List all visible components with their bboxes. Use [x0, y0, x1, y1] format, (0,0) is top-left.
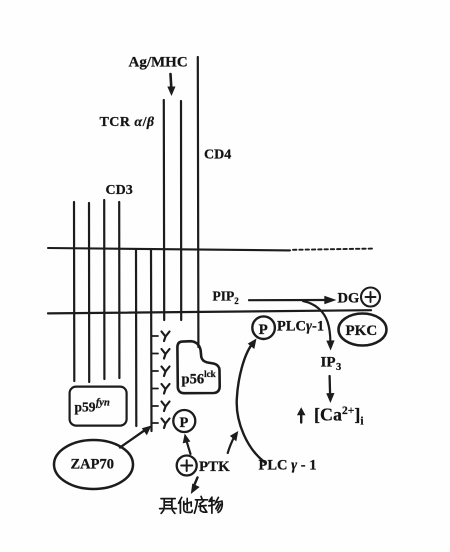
big curve PLCg-1 to circled P [237, 345, 265, 463]
hanzi WU (substance) [209, 497, 223, 513]
PKC ellipse [339, 314, 387, 346]
svg-text:CD4: CD4 [204, 148, 231, 163]
phosphotyrosine Y 5 [162, 402, 170, 412]
ITAM tick 3 [152, 370, 159, 372]
svg-text:Ag/MHC: Ag/MHC [129, 55, 188, 71]
p59fyn box [70, 387, 127, 426]
svg-text:p59fyn: p59fyn [75, 398, 110, 415]
phosphotyrosine Y 2 [162, 349, 170, 359]
ZAP70 ellipse [54, 440, 133, 489]
svg-text:PIP2: PIP2 [213, 289, 240, 307]
circled P on zeta chain [173, 410, 195, 432]
CD3 chain line 1 [73, 202, 76, 381]
svg-text:CD3: CD3 [106, 183, 133, 198]
circled plus (PTK) [177, 456, 197, 476]
small arrow from PTK to big curve [228, 436, 235, 453]
ITAM tick 2 [152, 353, 159, 355]
svg-text:ZAP70: ZAP70 [71, 457, 115, 473]
TCR beta chain line [180, 101, 182, 320]
CD4 chain vertical line [197, 57, 200, 347]
ITAM tick 4 [152, 388, 159, 390]
svg-text:PLC γ - 1: PLC γ - 1 [259, 458, 317, 474]
svg-text:p56lck: p56lck [182, 369, 216, 388]
curve branch from PIP2 arrow down to IP3 [303, 301, 330, 342]
CD3 chain line 2 [88, 203, 90, 382]
hanzi QI (other) [160, 499, 177, 514]
svg-text:PLCγ-1: PLCγ-1 [277, 319, 324, 335]
arrow IP3 down to Ca [328, 376, 331, 395]
svg-text:PKC: PKC [346, 323, 378, 339]
ITAM tick 6 [152, 422, 159, 424]
p56lck blob outline [177, 341, 219, 393]
up arrow of Ca concentration [300, 413, 302, 423]
hanzi TA (other) [179, 497, 193, 513]
ITAM tick 5 [152, 405, 159, 407]
circled P next to PLCg-1 [252, 316, 275, 339]
label (Chinese) 其他底物 "other substrates" [160, 496, 223, 513]
ITAM tick 1 [152, 335, 159, 337]
CD3 chain line 3 [103, 200, 105, 379]
TCR alpha chain line [163, 100, 166, 320]
zeta chain line 1 [135, 249, 138, 426]
svg-text:P: P [259, 322, 268, 338]
svg-text:PTK: PTK [199, 459, 230, 475]
arrow PIP2 to DG [249, 299, 325, 301]
arrow from Ag/MHC down to TCR [169, 74, 172, 88]
phosphotyrosine Y 6 [162, 419, 170, 429]
zeta chain line 2 (with ITAM ticks) [150, 249, 153, 431]
phosphotyrosine Y 4 [162, 384, 170, 394]
hanzi DI (bottom/base) [194, 496, 207, 513]
svg-text:P: P [180, 415, 189, 431]
svg-text:TCR α/β: TCR α/β [100, 115, 155, 130]
CD3 chain line 4 [118, 202, 120, 378]
arrow PTK down to substrates [194, 478, 197, 486]
circled plus (DG) [361, 288, 380, 307]
membrane upper line (solid part) [48, 248, 290, 250]
svg-text:IP3: IP3 [321, 355, 342, 374]
membrane lower line [48, 310, 371, 313]
phosphotyrosine Y 1 [162, 332, 170, 342]
membrane upper line (dashed part) [293, 249, 372, 250]
svg-text:[Ca2+]i: [Ca2+]i [314, 405, 364, 428]
svg-text:DG: DG [338, 291, 360, 307]
arrow ZAP70 to zeta chain [120, 430, 145, 448]
arrow PTK-plus up to circled P [186, 440, 190, 454]
phosphotyrosine Y 3 [162, 367, 170, 377]
